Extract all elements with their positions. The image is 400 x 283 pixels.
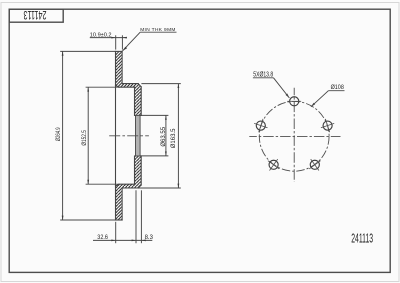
svg-text:10.9±0.2: 10.9±0.2	[90, 33, 112, 39]
svg-text:Ø163.5: Ø163.5	[171, 128, 177, 148]
svg-text:Ø108: Ø108	[331, 85, 344, 91]
svg-text:32.6: 32.6	[97, 235, 108, 241]
svg-text:Ø264.9: Ø264.9	[56, 127, 63, 141]
svg-text:5XØ13.8: 5XØ13.8	[253, 71, 273, 79]
svg-text:Ø63.55: Ø63.55	[161, 126, 167, 146]
svg-text:MIN THK 9MM: MIN THK 9MM	[140, 27, 176, 33]
svg-text:241113: 241113	[23, 7, 46, 20]
svg-text:Ø152.5: Ø152.5	[82, 130, 89, 146]
svg-text:241113: 241113	[351, 232, 373, 246]
svg-text:8.3: 8.3	[145, 235, 154, 241]
